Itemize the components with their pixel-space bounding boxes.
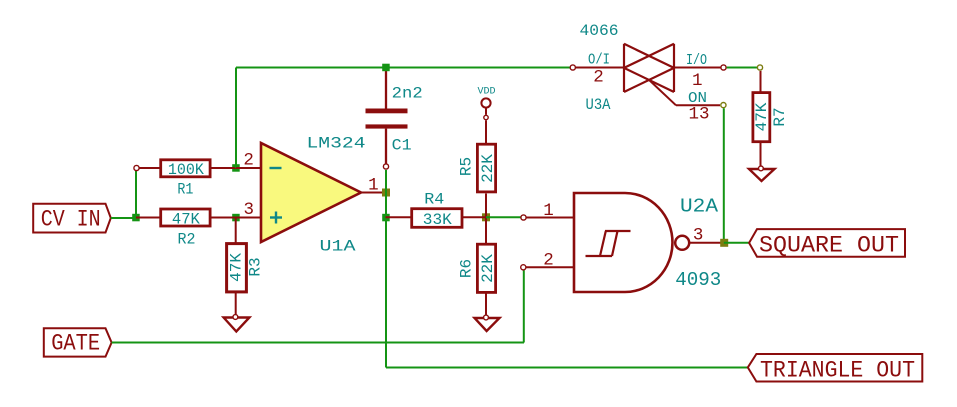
resistor R2 xyxy=(136,209,236,226)
junction at SQUARE OUT node xyxy=(720,239,728,247)
svg-text:2: 2 xyxy=(593,68,604,88)
svg-text:4066: 4066 xyxy=(580,22,619,40)
svg-text:R7: R7 xyxy=(771,107,789,126)
nand gate U2A xyxy=(521,193,724,292)
ground below R6 xyxy=(475,315,500,331)
svg-text:1: 1 xyxy=(543,201,554,221)
svg-text:GATE: GATE xyxy=(51,331,100,358)
wire R4 node to U2A pin 1 xyxy=(486,216,521,218)
junction at CV IN node xyxy=(132,214,140,222)
wire triangle vertical xyxy=(385,170,387,368)
junction at U1A pin 3 node xyxy=(232,214,240,222)
svg-text:13: 13 xyxy=(688,105,709,125)
svg-text:3: 3 xyxy=(243,200,254,220)
resistor R5 xyxy=(477,120,495,217)
pin-end dot at R7 top xyxy=(757,65,762,70)
global label SQUARE OUT xyxy=(749,229,905,259)
svg-text:33K: 33K xyxy=(423,211,452,229)
svg-text:SQUARE OUT: SQUARE OUT xyxy=(759,232,899,259)
svg-text:O/I: O/I xyxy=(588,52,610,69)
wire GATE to U2A pin 2 xyxy=(112,270,524,342)
svg-text:R4: R4 xyxy=(424,190,444,208)
wire CV IN to junction xyxy=(111,217,136,219)
analog switch U3A xyxy=(570,44,726,108)
wire vertical from pin2 node to top rail xyxy=(235,68,237,169)
svg-text:47K: 47K xyxy=(753,102,771,131)
svg-text:2n2: 2n2 xyxy=(392,85,423,103)
svg-text:47K: 47K xyxy=(172,211,200,229)
svg-text:R1: R1 xyxy=(177,181,193,199)
global label CV IN xyxy=(33,204,111,234)
junction at U1A output node xyxy=(382,189,390,197)
op-amp U1A xyxy=(236,143,386,242)
resistor R3 xyxy=(227,218,247,317)
junction at R4 left / triangle wire node xyxy=(382,214,390,222)
svg-text:3: 3 xyxy=(693,225,704,245)
resistor R4 xyxy=(386,209,487,228)
svg-text:LM324: LM324 xyxy=(307,135,366,153)
ground below R3 xyxy=(224,315,250,332)
svg-text:U3A: U3A xyxy=(586,96,611,114)
svg-text:1: 1 xyxy=(692,71,703,91)
svg-text:R2: R2 xyxy=(178,231,196,249)
wire U2A output to SQUARE OUT xyxy=(724,242,749,244)
resistor R6 xyxy=(477,217,495,317)
resistor R7 xyxy=(753,71,770,168)
wire triangle horizontal xyxy=(386,367,748,369)
global label GATE xyxy=(44,328,112,357)
wire vertical R1 feedback tap xyxy=(135,168,137,218)
svg-text:R5: R5 xyxy=(458,157,476,176)
svg-text:2: 2 xyxy=(243,151,254,171)
wire U3A ON feedback xyxy=(723,108,725,243)
svg-text:22K: 22K xyxy=(479,254,497,283)
svg-text:C1: C1 xyxy=(392,136,412,154)
svg-text:R6: R6 xyxy=(458,259,476,278)
wire U3A I/O to R7 xyxy=(727,67,760,69)
svg-text:VDD: VDD xyxy=(477,86,495,97)
svg-text:22K: 22K xyxy=(479,154,497,183)
svg-text:100K: 100K xyxy=(168,161,204,179)
svg-text:1: 1 xyxy=(368,176,379,196)
svg-text:CV IN: CV IN xyxy=(41,207,101,234)
svg-text:2: 2 xyxy=(543,250,554,270)
junction at R4/R5/R6 node xyxy=(482,213,490,221)
svg-text:U1A: U1A xyxy=(320,238,356,256)
junction at U1A pin 2 node xyxy=(232,164,240,172)
power symbol VDD xyxy=(481,98,490,119)
ground below R7 xyxy=(749,166,775,181)
svg-text:TRIANGLE OUT: TRIANGLE OUT xyxy=(760,357,915,384)
svg-text:U2A: U2A xyxy=(680,196,718,218)
svg-text:4093: 4093 xyxy=(675,269,721,291)
svg-text:R3: R3 xyxy=(246,257,264,276)
svg-text:47K: 47K xyxy=(228,253,246,282)
capacitor C1 xyxy=(366,68,408,170)
svg-text:I/O: I/O xyxy=(686,52,707,69)
wire top rail xyxy=(236,67,572,69)
resistor R1 xyxy=(134,160,236,177)
junction at C1 top node xyxy=(382,64,390,71)
global label TRIANGLE OUT xyxy=(748,354,923,384)
